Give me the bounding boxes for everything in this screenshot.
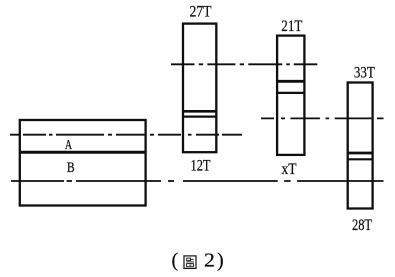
svg-text:xT: xT — [282, 161, 297, 178]
svg-text:12T: 12T — [191, 158, 211, 175]
svg-text:28T: 28T — [352, 217, 372, 234]
svg-text:A: A — [65, 138, 73, 153]
svg-text:): ) — [217, 250, 224, 272]
svg-text:B: B — [67, 160, 75, 176]
svg-text:33T: 33T — [354, 64, 375, 81]
svg-text:2: 2 — [204, 250, 215, 272]
svg-text:21T: 21T — [281, 18, 302, 35]
svg-text:27T: 27T — [190, 4, 212, 21]
svg-text:(: ( — [172, 250, 179, 272]
